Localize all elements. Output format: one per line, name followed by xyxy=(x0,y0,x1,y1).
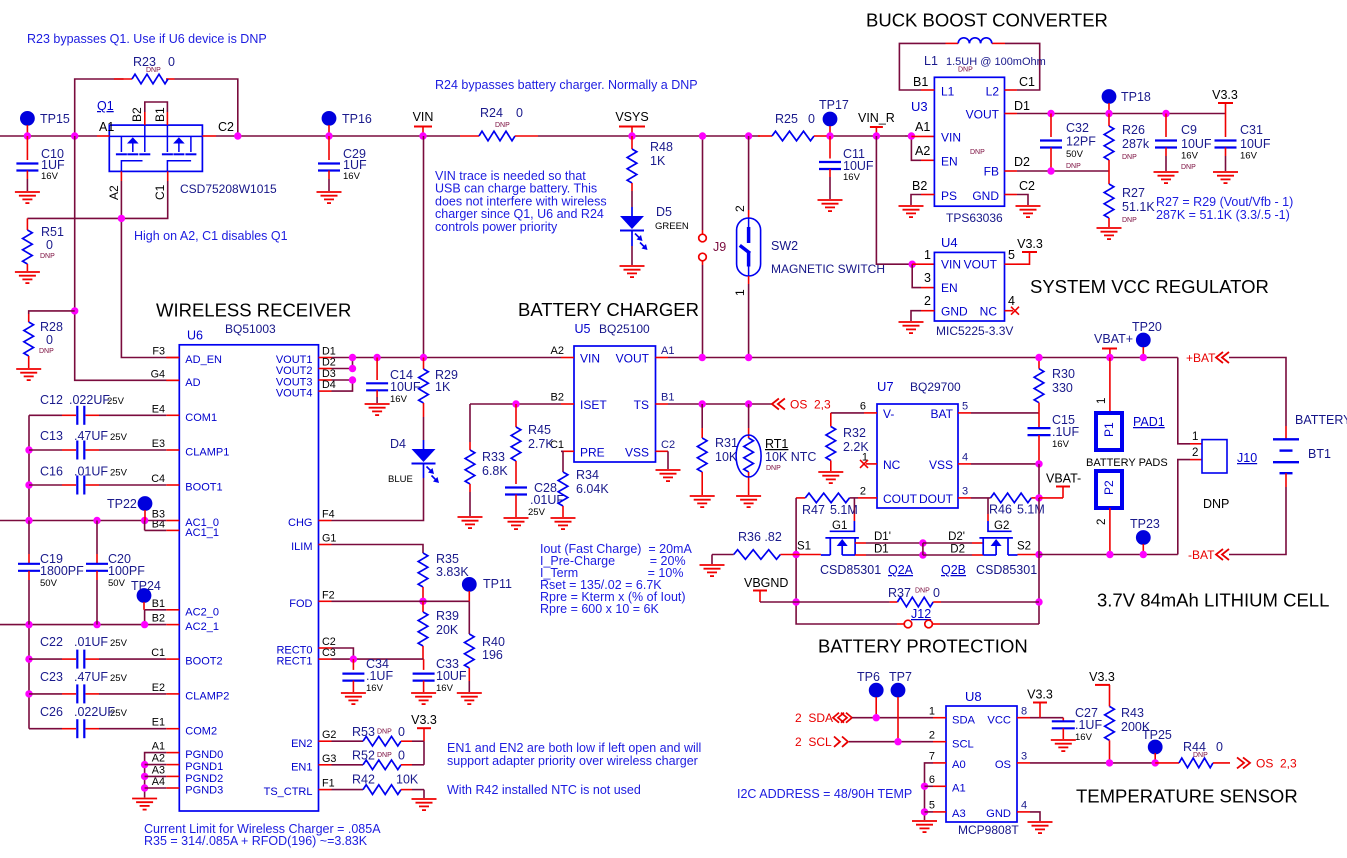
svg-text:VBGND: VBGND xyxy=(744,576,788,590)
pin D1 VOUT xyxy=(1005,99,1031,114)
capacitor C19 xyxy=(18,521,84,625)
svg-text:4: 4 xyxy=(1021,800,1027,812)
svg-text:C12: C12 xyxy=(40,393,63,407)
svg-text:C22: C22 xyxy=(40,635,63,649)
svg-text:DNP: DNP xyxy=(1066,163,1081,170)
svg-text:V3.3: V3.3 xyxy=(1212,88,1238,102)
pad P1 xyxy=(1096,358,1122,451)
svg-text:VIN: VIN xyxy=(580,352,600,366)
ground xyxy=(818,472,843,483)
svg-text:VBAT+: VBAT+ xyxy=(1094,332,1133,346)
svg-text:6.04K: 6.04K xyxy=(576,482,609,496)
svg-text:A1: A1 xyxy=(915,120,930,134)
svg-text:R45: R45 xyxy=(528,423,551,437)
capacitor C23 xyxy=(29,670,166,703)
svg-text:DNP: DNP xyxy=(766,465,781,472)
wire TS row xyxy=(668,403,772,405)
junction xyxy=(745,400,752,407)
svg-text:BOOT2: BOOT2 xyxy=(185,656,222,668)
svg-text:V3.3: V3.3 xyxy=(1089,670,1115,684)
capacitor C28 xyxy=(505,481,564,518)
svg-text:EN: EN xyxy=(941,155,958,169)
junction xyxy=(325,132,332,139)
wire VOUT rail U6 xyxy=(332,357,562,359)
svg-text:A1: A1 xyxy=(99,120,114,134)
capacitor C20 xyxy=(86,521,145,625)
ground xyxy=(412,799,437,810)
svg-text:DOUT: DOUT xyxy=(919,492,954,506)
svg-text:PGND3: PGND3 xyxy=(185,785,223,797)
capacitor C34 xyxy=(342,657,393,694)
svg-text:R43: R43 xyxy=(1121,706,1144,720)
svg-text:DNP: DNP xyxy=(958,67,973,74)
testpoint TP24 xyxy=(131,579,161,610)
svg-text:R26: R26 xyxy=(1122,123,1145,137)
svg-text:100PF: 100PF xyxy=(108,564,145,578)
capacitor C32 xyxy=(1040,114,1096,172)
svg-text:RECT1: RECT1 xyxy=(276,656,312,668)
svg-text:10UF: 10UF xyxy=(1181,137,1212,151)
svg-text:VOUT4: VOUT4 xyxy=(276,388,313,400)
svg-text:AC2_1: AC2_1 xyxy=(185,621,219,633)
svg-text:F1: F1 xyxy=(322,778,335,790)
resistor R29 xyxy=(419,358,458,418)
resistor R45 xyxy=(511,404,554,484)
capacitor C14 xyxy=(366,358,421,406)
svg-text:R27: R27 xyxy=(1122,186,1145,200)
svg-text:U6: U6 xyxy=(187,329,203,343)
title WIRELESS RECEIVER xyxy=(156,300,351,321)
wire S1 stub xyxy=(796,541,821,555)
ground xyxy=(1051,740,1076,751)
svg-text:1800PF: 1800PF xyxy=(40,564,84,578)
capacitor C11 xyxy=(819,136,874,199)
svg-text:J10: J10 xyxy=(1237,451,1257,465)
pin B2 AC2_1 xyxy=(152,613,180,625)
junction xyxy=(792,598,799,605)
wire D2p row xyxy=(923,531,983,543)
junction xyxy=(349,365,356,372)
svg-text:controls power priority: controls power priority xyxy=(435,220,558,234)
offpage -BAT xyxy=(1188,548,1229,562)
svg-text:A3: A3 xyxy=(952,808,966,820)
svg-text:BAT: BAT xyxy=(931,407,954,421)
svg-text:1K: 1K xyxy=(435,380,451,394)
resistor R23 xyxy=(114,55,175,84)
svg-text:Q2B: Q2B xyxy=(941,563,966,577)
offpage OS xyxy=(772,398,831,412)
svg-text:0: 0 xyxy=(808,112,815,126)
svg-text:R34: R34 xyxy=(576,468,599,482)
capacitor C29 xyxy=(318,136,367,191)
pin 3 OS xyxy=(1017,751,1030,763)
label PAD1 xyxy=(1133,415,1165,429)
power VBAT- xyxy=(1039,472,1081,498)
pin 6 V- xyxy=(860,401,877,413)
svg-text:2.7K: 2.7K xyxy=(528,437,554,451)
resistor R36 xyxy=(712,530,796,559)
title BATTERY PROTECTION xyxy=(818,636,1028,657)
junction xyxy=(349,354,356,361)
svg-text:V3.3: V3.3 xyxy=(1027,688,1053,702)
resistor R35 xyxy=(418,552,469,601)
svg-text:VIN: VIN xyxy=(413,110,434,124)
resistor R24 xyxy=(460,106,538,141)
testpoint TP16 xyxy=(322,111,372,136)
thermistor RT1 xyxy=(736,404,816,495)
svg-text:TP15: TP15 xyxy=(40,112,70,126)
junction xyxy=(873,132,880,139)
svg-text:CSD75208W1015: CSD75208W1015 xyxy=(180,182,277,196)
svg-text:V3.3: V3.3 xyxy=(411,713,437,727)
wire D1p row xyxy=(855,531,923,543)
capacitor C33 xyxy=(413,657,467,694)
wire PGND2 xyxy=(145,775,167,777)
wire R40 drop xyxy=(468,601,470,634)
svg-text:CSD85301: CSD85301 xyxy=(976,563,1037,577)
testpoint TP17 xyxy=(819,98,849,136)
svg-text:C2: C2 xyxy=(218,120,234,134)
svg-text:10UF: 10UF xyxy=(843,159,874,173)
svg-text:CLAMP1: CLAMP1 xyxy=(185,447,229,459)
svg-text:16V: 16V xyxy=(1181,151,1199,162)
pin C2 VSS xyxy=(656,439,676,452)
capacitor C31 xyxy=(1215,114,1271,172)
label U6 xyxy=(187,322,276,343)
label MIC5225-3.3V xyxy=(936,324,1013,338)
svg-text:DNP: DNP xyxy=(1193,752,1208,759)
power V3.3 xyxy=(1212,88,1238,114)
junction xyxy=(141,761,148,768)
svg-text:B1: B1 xyxy=(661,392,674,404)
junction xyxy=(894,738,901,745)
svg-text:PS: PS xyxy=(941,189,957,203)
svg-text:VIN: VIN xyxy=(941,131,961,145)
ground xyxy=(15,272,40,283)
svg-text:10K: 10K xyxy=(715,450,738,464)
svg-text:TP7: TP7 xyxy=(889,670,912,684)
pin 5 VOUT xyxy=(1005,248,1018,264)
svg-text:0: 0 xyxy=(168,55,175,69)
label TPS63036 xyxy=(946,211,1003,225)
svg-text:V-: V- xyxy=(883,407,894,421)
svg-text:5: 5 xyxy=(1008,248,1015,262)
svg-text:VOUT: VOUT xyxy=(616,352,650,366)
testpoint TP6 xyxy=(857,670,884,718)
svg-text:3.83K: 3.83K xyxy=(436,565,469,579)
U4 pin names xyxy=(941,258,998,319)
wire C15 to DOUT xyxy=(1038,464,1040,498)
svg-text:G2: G2 xyxy=(994,520,1009,532)
svg-text:R32: R32 xyxy=(843,426,866,440)
svg-text:TP25: TP25 xyxy=(1142,728,1172,742)
pin B2 PS xyxy=(912,179,934,195)
svg-text:VOUT: VOUT xyxy=(964,258,998,272)
junction xyxy=(628,132,635,139)
wire A3 stub xyxy=(925,811,934,813)
ground xyxy=(1028,822,1053,833)
svg-text:C31: C31 xyxy=(1240,123,1263,137)
ground xyxy=(551,518,576,529)
wire PGND1 xyxy=(145,764,167,766)
svg-text:10UF: 10UF xyxy=(1240,137,1271,151)
svg-text:High on A2, C1 disables Q1: High on A2, C1 disables Q1 xyxy=(134,229,288,243)
wire rail to J10 pin2 xyxy=(1178,460,1190,555)
svg-text:10UF: 10UF xyxy=(390,380,421,394)
junction xyxy=(512,400,519,407)
junction xyxy=(1047,110,1054,117)
wire OS row xyxy=(1030,762,1155,764)
ground xyxy=(1154,172,1179,183)
label MCP9808T xyxy=(958,823,1019,837)
svg-text:TS: TS xyxy=(634,398,649,412)
wire gate bracket xyxy=(145,102,168,112)
svg-text:U3: U3 xyxy=(911,99,928,114)
svg-text:E3: E3 xyxy=(152,438,165,450)
junction xyxy=(919,539,926,546)
pin G3 EN1 xyxy=(319,753,337,765)
note VIN trace xyxy=(435,169,607,234)
ground xyxy=(411,693,436,704)
wire VSS gnd xyxy=(667,451,669,469)
svg-text:A4: A4 xyxy=(152,776,165,788)
svg-text:BATTERY PADS: BATTERY PADS xyxy=(1086,457,1168,469)
junction xyxy=(24,132,31,139)
svg-text:EN: EN xyxy=(941,281,958,295)
svg-text:CSD85301: CSD85301 xyxy=(820,563,881,577)
svg-text:DNP: DNP xyxy=(495,122,510,129)
svg-text:R24: R24 xyxy=(480,106,503,120)
svg-text:SYSTEM VCC REGULATOR: SYSTEM VCC REGULATOR xyxy=(1030,276,1269,297)
svg-text:OS: OS xyxy=(995,759,1011,771)
svg-text:BATTERY PROTECTION: BATTERY PROTECTION xyxy=(818,636,1028,657)
op-amp U4 box xyxy=(934,252,1004,321)
capacitor C15 xyxy=(1028,413,1080,464)
svg-text:GND: GND xyxy=(986,808,1011,820)
ground xyxy=(16,369,41,380)
svg-text:ISET: ISET xyxy=(580,398,607,412)
svg-text:E2: E2 xyxy=(152,682,165,694)
svg-text:RT1: RT1 xyxy=(765,437,788,451)
pin 2 SCL xyxy=(929,730,946,742)
svg-text:TP11: TP11 xyxy=(483,577,512,591)
junction xyxy=(1162,110,1169,117)
label CSD75208W1015 xyxy=(180,182,277,196)
note High on A2 xyxy=(134,229,288,243)
svg-text:25V: 25V xyxy=(110,432,128,443)
svg-text:A2: A2 xyxy=(551,345,564,357)
label U7 xyxy=(877,379,961,394)
svg-text:C16: C16 xyxy=(40,465,63,479)
svg-text:B2: B2 xyxy=(912,179,927,193)
junction xyxy=(1047,167,1054,174)
resistor R40 xyxy=(465,634,505,692)
wire A2-C1 net xyxy=(27,181,179,358)
wire A1 stub xyxy=(925,785,934,787)
svg-text:Q2A: Q2A xyxy=(888,563,914,577)
pin D1 VOUT1 xyxy=(319,346,336,358)
svg-text:.022UF: .022UF xyxy=(69,393,110,407)
pin A1 PGND0 xyxy=(152,741,180,753)
svg-text:R35 = 314/.085A + RFOD(196) ~=: R35 = 314/.085A + RFOD(196) ~=3.83K xyxy=(144,834,368,848)
wire VOUT bracket xyxy=(332,358,353,392)
svg-text:25V: 25V xyxy=(110,673,128,684)
svg-text:SDA: SDA xyxy=(952,714,976,726)
svg-text:BUCK BOOST CONVERTER: BUCK BOOST CONVERTER xyxy=(866,10,1108,31)
pin B2 xyxy=(130,107,145,125)
svg-text:D1: D1 xyxy=(874,544,889,556)
junction xyxy=(1106,551,1113,558)
svg-text:A0: A0 xyxy=(952,759,966,771)
svg-text:BATTERY CHARGER: BATTERY CHARGER xyxy=(518,299,699,320)
svg-text:.01UF: .01UF xyxy=(74,465,108,479)
junction xyxy=(1106,759,1113,766)
svg-text:R52: R52 xyxy=(352,749,375,763)
resistor R51 xyxy=(23,218,64,271)
junction xyxy=(1106,354,1113,361)
svg-text:F4: F4 xyxy=(322,509,335,521)
junction xyxy=(792,551,799,558)
wire D tie xyxy=(922,543,924,555)
svg-text:C23: C23 xyxy=(40,670,63,684)
svg-text:7: 7 xyxy=(929,751,935,763)
testpoint TP7 xyxy=(889,670,912,742)
svg-text:D2: D2 xyxy=(1014,155,1030,169)
svg-text:PGND0: PGND0 xyxy=(185,749,223,761)
op-amp U3 box xyxy=(934,77,1004,206)
wire R29 to D4 xyxy=(423,417,425,449)
wire PS gnd xyxy=(911,195,921,206)
connector J9 xyxy=(699,234,727,261)
svg-text:5: 5 xyxy=(962,401,968,413)
svg-text:J12: J12 xyxy=(911,607,931,621)
junction xyxy=(1140,354,1147,361)
resistor R25 xyxy=(758,112,828,141)
testpoint TP23 xyxy=(1130,517,1160,555)
svg-text:support adapter priority over: support adapter priority over wireless c… xyxy=(447,754,698,768)
wire J9 bottom xyxy=(702,261,704,358)
wire U4 EN branch xyxy=(912,264,921,287)
svg-text:C4: C4 xyxy=(151,473,165,485)
note R42 NTC xyxy=(447,783,641,797)
svg-text:I2C ADDRESS = 48/90H TEMP: I2C ADDRESS = 48/90H TEMP xyxy=(737,787,912,801)
ground xyxy=(1097,228,1122,239)
svg-text:10K NTC: 10K NTC xyxy=(765,450,816,464)
pin D3 VOUT3 xyxy=(319,368,336,380)
pin 5 A3 xyxy=(929,800,946,812)
resistor R44 xyxy=(1155,740,1230,768)
svg-text:D2: D2 xyxy=(950,544,965,556)
wire VIN bus xyxy=(0,135,905,137)
pin 4 GND xyxy=(1017,800,1030,812)
junction xyxy=(141,773,148,780)
resistor R52 xyxy=(332,749,425,770)
junction xyxy=(141,517,148,524)
svg-text:.1UF: .1UF xyxy=(1052,425,1079,439)
pin B1 TS xyxy=(656,392,675,405)
svg-text:COM2: COM2 xyxy=(185,725,217,737)
ground xyxy=(1016,206,1041,217)
wire G2 riser xyxy=(987,498,989,521)
wire D1 row xyxy=(855,544,923,556)
svg-text:TPS63036: TPS63036 xyxy=(946,211,1003,225)
svg-text:+BAT: +BAT xyxy=(1186,351,1216,365)
svg-text:R35: R35 xyxy=(436,552,459,566)
svg-text:50V: 50V xyxy=(40,578,58,589)
wire D4 to CHG xyxy=(332,464,424,521)
svg-text:25V: 25V xyxy=(110,708,128,719)
wire R23 branch right xyxy=(175,79,238,136)
svg-text:BATTERY: BATTERY xyxy=(1295,413,1347,427)
svg-text:D4: D4 xyxy=(390,437,406,451)
ground xyxy=(736,496,761,507)
svg-text:DNP: DNP xyxy=(1122,217,1137,224)
svg-text:CLAMP2: CLAMP2 xyxy=(185,691,229,703)
svg-text:A2: A2 xyxy=(152,753,165,765)
connector J12 xyxy=(904,607,932,628)
power V3.3 xyxy=(1089,670,1115,706)
wire BAT row xyxy=(971,412,1039,414)
svg-text:2 SDA: 2 SDA xyxy=(795,711,833,725)
switch SW2 xyxy=(733,205,885,296)
svg-text:16V: 16V xyxy=(1075,732,1093,743)
svg-text:R42: R42 xyxy=(352,773,375,787)
junction xyxy=(25,446,32,453)
offpage SCL xyxy=(795,735,933,749)
svg-text:R25: R25 xyxy=(775,112,798,126)
svg-text:.1UF: .1UF xyxy=(366,669,393,683)
svg-text:S1: S1 xyxy=(797,541,811,553)
pin A2 VIN xyxy=(551,345,574,357)
capacitor C26 xyxy=(29,705,166,738)
svg-text:D5: D5 xyxy=(656,205,672,219)
svg-text:5.1M: 5.1M xyxy=(1017,503,1045,517)
capacitor C22 xyxy=(29,635,166,669)
svg-text:16V: 16V xyxy=(366,683,384,694)
svg-text:SCL: SCL xyxy=(952,738,974,750)
resistor R30 xyxy=(1034,358,1075,413)
svg-text:P2: P2 xyxy=(1102,480,1116,495)
testpoint TP25 xyxy=(1142,728,1172,763)
resistor R46 xyxy=(989,493,1045,516)
pin E1 COM2 xyxy=(152,717,180,729)
svg-text:20K: 20K xyxy=(436,623,459,637)
svg-text:TP22: TP22 xyxy=(107,497,137,511)
wire VCC corner xyxy=(1030,717,1063,719)
wire DOUT row xyxy=(971,497,991,499)
svg-text:C3: C3 xyxy=(322,647,336,659)
wire PRE row xyxy=(561,451,563,472)
wire L1 right xyxy=(1005,43,1040,90)
junction xyxy=(234,132,241,139)
wire U3 VIN EN xyxy=(905,136,921,160)
wire GND right xyxy=(1017,195,1028,206)
svg-text:L1: L1 xyxy=(941,85,955,99)
svg-text:16V: 16V xyxy=(343,171,361,182)
junction xyxy=(420,354,427,361)
junction xyxy=(826,132,833,139)
wire SW2 bottom xyxy=(748,276,750,358)
resistor R26 xyxy=(1104,114,1150,172)
wire FOD row xyxy=(332,600,470,602)
svg-text:50V: 50V xyxy=(1066,149,1084,160)
svg-text:3.7V 84mAh LITHIUM CELL: 3.7V 84mAh LITHIUM CELL xyxy=(1097,590,1329,611)
pin C4 BOOT1 xyxy=(151,473,179,485)
pin C2 GND xyxy=(1005,179,1036,195)
wire R23 branch left xyxy=(75,79,124,136)
op-amp U5 box xyxy=(574,346,656,462)
junction xyxy=(141,621,148,628)
